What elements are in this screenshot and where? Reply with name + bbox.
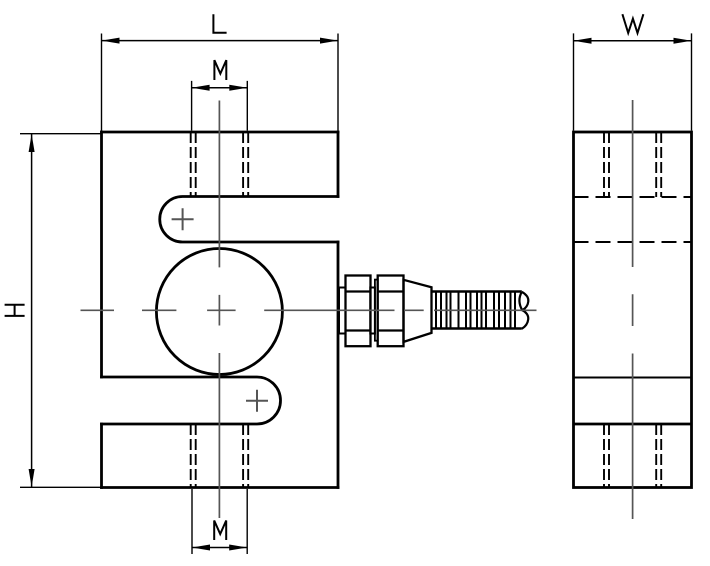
dimension W line — [574, 40, 692, 42]
side view top slot hidden edges — [574, 197, 692, 242]
dimension H arrows — [29, 134, 35, 152]
cable gland hex nut 1 — [346, 276, 371, 347]
side view body outline — [574, 132, 692, 488]
side view threaded holes top — [604, 132, 661, 197]
dimension H line — [31, 134, 33, 487]
cable gland neck — [370, 288, 375, 334]
cable gland collar — [375, 280, 378, 341]
front view body outline — [102, 132, 339, 488]
dimension H extension lines — [20, 134, 102, 488]
cable boot ribs — [436, 292, 515, 329]
dimension L extension lines — [102, 34, 339, 131]
top slot arc center cross — [172, 208, 194, 230]
label M bottom — [214, 521, 226, 541]
label H (rotated) — [5, 305, 25, 316]
cable gland washer — [339, 288, 346, 334]
dimension M top extension lines — [192, 81, 248, 131]
dimension W extension lines — [574, 33, 692, 130]
top slot (opens right, rounded left end) — [160, 197, 338, 243]
center hole circle — [156, 249, 282, 375]
dimension M bottom line — [192, 547, 247, 549]
dimension M bottom arrows — [192, 545, 210, 551]
dimension M top arrows — [192, 85, 210, 91]
cable break symbol — [519, 292, 528, 329]
dimension M bottom extension lines — [192, 489, 247, 554]
cable boot ribbed section — [432, 292, 522, 329]
side view threaded holes bottom — [604, 424, 661, 488]
front threaded holes (hidden lines) bottom — [191, 424, 249, 488]
dimension L arrows — [102, 38, 120, 44]
cable gland cone — [404, 280, 432, 342]
vertical centerline front view — [218, 101, 220, 519]
dimension W arrows — [574, 38, 592, 44]
bottom slot arc center cross — [246, 390, 268, 412]
side view bottom slot lower edge — [574, 423, 692, 426]
front threaded holes (hidden lines) top — [191, 132, 249, 197]
label L — [213, 14, 226, 32]
label W — [622, 14, 643, 33]
bottom slot (opens left, rounded right end) — [102, 377, 281, 424]
dimension M top line — [192, 87, 248, 89]
side view bottom slot visible edge — [574, 377, 692, 379]
dimension L line — [102, 40, 339, 42]
cable gland hex nut 2 — [378, 276, 404, 347]
horizontal centerline front view — [81, 309, 537, 311]
label M top — [214, 60, 226, 80]
vertical centerline side view — [632, 100, 634, 519]
